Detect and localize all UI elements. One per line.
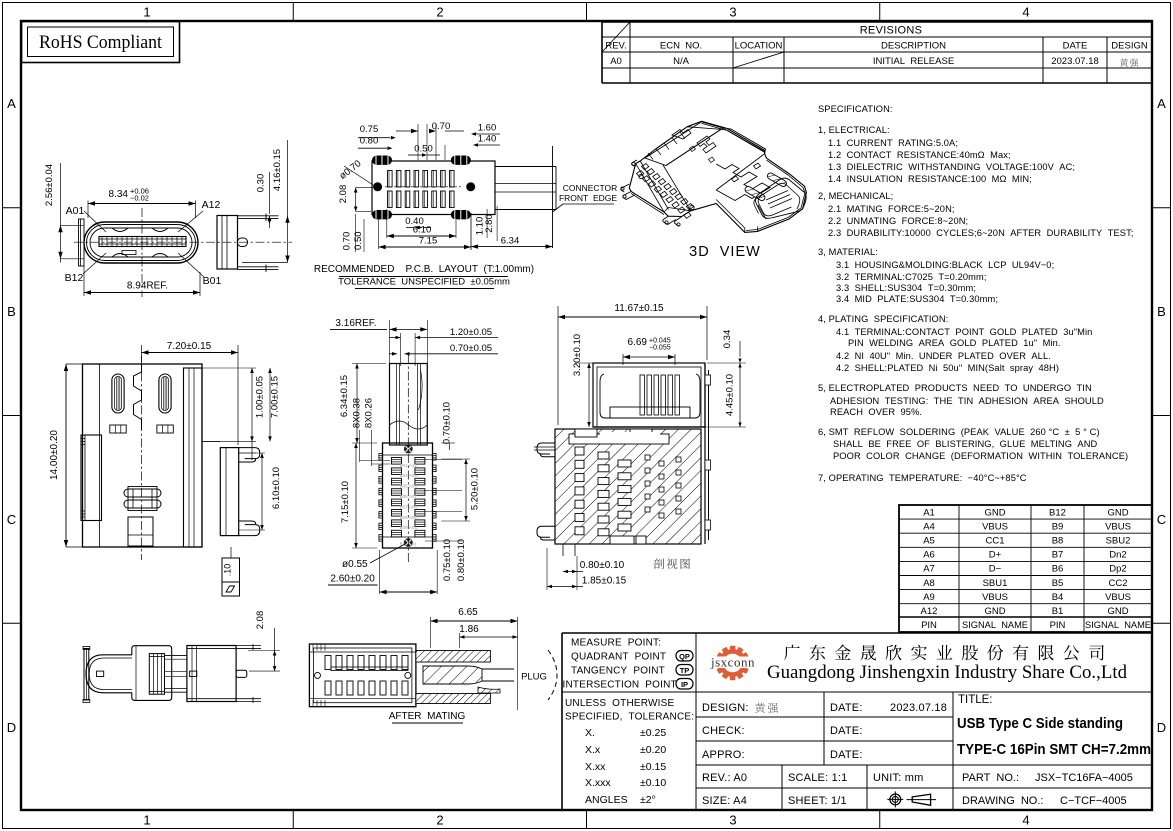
pcb layout: body (372, 156, 556, 220)
svg-text:X.: X. (585, 727, 595, 739)
side view dims 1.00 / 7.00 (202, 368, 281, 460)
company logo gear (702, 646, 763, 680)
mated profile view (83, 644, 261, 703)
svg-text:2.1 MATING FORCE:5~20N;: 2.1 MATING FORCE:5~20N; (828, 204, 955, 214)
svg-text:D: D (1157, 720, 1166, 735)
designer name in design cell (755, 703, 778, 713)
svg-text:2.60±0.20: 2.60±0.20 (330, 574, 375, 585)
recommended pcb layout caption (314, 264, 534, 289)
design/check/appro rows (702, 702, 947, 807)
svg-text:3.3 SHELL:SUS304 T=0.30mm;: 3.3 SHELL:SUS304 T=0.30mm; (836, 283, 976, 293)
svg-text:0.75±0.10: 0.75±0.10 (442, 539, 453, 581)
svg-text:B12: B12 (65, 272, 84, 284)
svg-text:VBUS: VBUS (1105, 521, 1131, 532)
svg-text:A5: A5 (923, 536, 935, 547)
svg-text:−0.02: −0.02 (130, 194, 149, 203)
svg-text:DESCRIPTION: DESCRIPTION (881, 41, 946, 52)
svg-text:14.00±0.20: 14.00±0.20 (49, 430, 60, 480)
svg-text:VBUS: VBUS (982, 521, 1008, 532)
pin assignment table (899, 505, 1152, 632)
svg-text:1.40: 1.40 (478, 134, 497, 145)
svg-text:QUADRANT POINT: QUADRANT POINT (571, 652, 666, 663)
svg-text:2: 2 (436, 813, 443, 828)
svg-text:2.80: 2.80 (484, 214, 495, 233)
svg-text:0.50: 0.50 (414, 144, 433, 155)
svg-text:SBU2: SBU2 (1106, 536, 1131, 547)
svg-text:B01: B01 (203, 275, 222, 287)
svg-text:QP: QP (679, 652, 690, 661)
projection symbols (887, 791, 936, 807)
svg-text:±0.15: ±0.15 (640, 761, 666, 773)
svg-text:Dp2: Dp2 (1109, 564, 1126, 575)
after mating caption (389, 711, 466, 723)
svg-text:DESIGN: DESIGN (1111, 41, 1148, 52)
svg-text:C−TCF−4005: C−TCF−4005 (1060, 795, 1127, 807)
svg-text:11.67±0.15: 11.67±0.15 (614, 303, 664, 314)
svg-text:2.2 UNMATING FORCE:8~20N;: 2.2 UNMATING FORCE:8~20N; (828, 216, 968, 226)
svg-text:A0: A0 (610, 56, 622, 67)
svg-text:INITIAL RELEASE: INITIAL RELEASE (873, 56, 954, 67)
side view: body outline (81, 356, 260, 560)
svg-text:AFTER MATING: AFTER MATING (389, 711, 466, 722)
svg-text:1.20±0.05: 1.20±0.05 (450, 327, 492, 338)
svg-text:0.34: 0.34 (722, 330, 733, 349)
front view dimension 4.16 (242, 140, 290, 263)
svg-text:MEASURE POINT:: MEASURE POINT: (571, 638, 661, 649)
svg-text:IP: IP (681, 680, 688, 689)
connector front edge note (553, 146, 618, 248)
company english name (767, 663, 1128, 683)
front view: connector outline (74, 208, 292, 297)
front view dimension 8.34 (88, 187, 196, 219)
front view dimension 2.56 (44, 163, 84, 263)
svg-text:7.15: 7.15 (419, 236, 438, 247)
svg-text:−0.055: −0.055 (649, 345, 671, 352)
specification text block (818, 104, 1134, 483)
svg-text:6.34±0.15: 6.34±0.15 (339, 375, 350, 417)
svg-text:4: 4 (1022, 5, 1029, 20)
svg-text:0.75: 0.75 (360, 124, 379, 135)
svg-text:7.20±0.15: 7.20±0.15 (167, 341, 212, 352)
front view dimension 8.94REF (84, 266, 200, 296)
section view dim 11.67 (558, 303, 707, 425)
svg-text:DRAWING NO.:: DRAWING NO.: (962, 795, 1043, 807)
tolerance box text (565, 698, 694, 806)
svg-text:0.70: 0.70 (432, 121, 451, 132)
pcb layout dimensions top (358, 121, 500, 160)
svg-text:APPRO:: APPRO: (702, 749, 745, 761)
front view pin labels (65, 199, 222, 287)
svg-text:REACH OVER 95%.: REACH OVER 95%. (830, 407, 922, 417)
svg-text:2.08: 2.08 (255, 611, 266, 630)
designer name (chinese) in revisions (1120, 58, 1138, 66)
svg-text:2, MECHANICAL;: 2, MECHANICAL; (818, 191, 893, 201)
svg-text:6.69: 6.69 (628, 337, 648, 348)
svg-text:3.2 TERMINAL:C7025 T=0.20mm;: 3.2 TERMINAL:C7025 T=0.20mm; (836, 272, 987, 282)
svg-text:SHEET: 1/1: SHEET: 1/1 (788, 795, 847, 807)
svg-text:7, OPERATING TEMPERATURE: −4: 7, OPERATING TEMPERATURE: −40°C~+85°C (818, 473, 1027, 483)
section view dims 0.34 / 4.45 (705, 330, 746, 427)
svg-text:ECN NO.: ECN NO. (660, 41, 702, 52)
svg-text:INTERSECTION POINT: INTERSECTION POINT (563, 680, 677, 691)
svg-text:5.20±0.10: 5.20±0.10 (469, 468, 480, 510)
svg-text:±0.20: ±0.20 (640, 744, 666, 756)
svg-text:D+: D+ (989, 550, 1002, 561)
svg-text:CC1: CC1 (985, 536, 1004, 547)
front view dimension 0.30 (256, 172, 272, 228)
svg-text:A12: A12 (921, 606, 938, 617)
svg-text:±2°: ±2° (640, 794, 656, 806)
svg-text:A: A (1157, 96, 1166, 111)
measure point box text (563, 638, 694, 691)
svg-text:4, PLATING SPECIFICATION:: 4, PLATING SPECIFICATION: (818, 314, 948, 324)
3d view drawing (621, 121, 807, 232)
svg-text:REVISIONS: REVISIONS (860, 25, 923, 37)
zone ticks (292, 3, 294, 22)
revisions table (602, 22, 1152, 83)
svg-text:RECOMMENDED P.C.B. LAYOUT: RECOMMENDED P.C.B. LAYOUT (T:1.00mm) (314, 264, 534, 275)
svg-text:ADHESION TESTING: THE TIN: ADHESION TESTING: THE TIN ADHESION AREA … (830, 396, 1104, 406)
svg-text:CONNECTOR: CONNECTOR (563, 183, 618, 193)
svg-text:+0.045: +0.045 (649, 338, 671, 345)
side view dim 14.00 (49, 364, 83, 547)
svg-text:D: D (7, 720, 16, 735)
svg-text:1.3 DIELECTRIC WITHSTANDING: 1.3 DIELECTRIC WITHSTANDING VOLTAGE:100V… (828, 162, 1075, 172)
svg-text:D−: D− (989, 564, 1002, 575)
svg-text:LOCATION: LOCATION (735, 41, 783, 52)
svg-text:.10: .10 (223, 564, 233, 577)
svg-text:A12: A12 (202, 199, 221, 211)
svg-text:4.1 TERMINAL:CONTACT POINT: 4.1 TERMINAL:CONTACT POINT GOLD PLATED 3… (836, 327, 1092, 337)
svg-text:5, ELECTROPLATED PRODUCTS NE: 5, ELECTROPLATED PRODUCTS NEED TO UNDERG… (818, 383, 1092, 393)
svg-text:VBUS: VBUS (982, 592, 1008, 603)
RoHS compliant label box (22, 22, 180, 63)
svg-text:SIZE: A4: SIZE: A4 (702, 795, 747, 807)
svg-text:SIGNAL NAME: SIGNAL NAME (962, 620, 1028, 630)
svg-text:B: B (7, 304, 16, 319)
svg-text:2: 2 (436, 5, 443, 20)
svg-text:SPECIFICATION:: SPECIFICATION: (818, 104, 893, 114)
svg-text:A01: A01 (66, 205, 85, 217)
svg-text:DATE:: DATE: (830, 749, 863, 761)
svg-text:A4: A4 (923, 521, 935, 532)
side view dim 6.10 (239, 453, 282, 530)
section view label (654, 558, 690, 569)
svg-text:6.34: 6.34 (501, 236, 520, 247)
svg-text:GND: GND (984, 606, 1005, 617)
svg-text:ø0.55: ø0.55 (342, 559, 368, 570)
svg-text:C: C (1157, 512, 1166, 527)
svg-text:PART NO.:: PART NO.: (962, 772, 1019, 784)
svg-text:TOLERANCE UNSPECIFIED ±0.05m: TOLERANCE UNSPECIFIED ±0.05mm (338, 277, 510, 288)
svg-text:0.70: 0.70 (342, 232, 353, 251)
svg-text:SHALL BE FREE OF BLISTERIN: SHALL BE FREE OF BLISTERING, GLUE MELTIN… (833, 439, 1098, 449)
svg-text:PLUG: PLUG (521, 672, 547, 683)
section view dim 3.20 (566, 334, 593, 427)
title text (957, 694, 1151, 807)
svg-text:4.2 SHELL:PLATED Ni 50u" M: 4.2 SHELL:PLATED Ni 50u" MIN(Salt spray … (836, 363, 1059, 373)
svg-text:6.65: 6.65 (458, 607, 478, 618)
svg-text:X.xxx: X.xxx (585, 777, 611, 789)
company chinese name (784, 645, 1104, 661)
svg-text:B12: B12 (1049, 507, 1066, 518)
svg-text:B8: B8 (1052, 536, 1064, 547)
svg-text:PIN: PIN (921, 620, 937, 631)
svg-text:7.00±0.15: 7.00±0.15 (270, 376, 281, 418)
svg-text:2023.07.18: 2023.07.18 (890, 702, 947, 714)
svg-text:A1: A1 (923, 507, 935, 518)
svg-text:CHECK:: CHECK: (702, 725, 745, 737)
svg-text:1.86: 1.86 (459, 624, 479, 635)
svg-text:A6: A6 (923, 550, 935, 561)
svg-text:SIGNAL NAME: SIGNAL NAME (1085, 620, 1151, 630)
svg-text:UNLESS OTHERWISE: UNLESS OTHERWISE (565, 698, 674, 709)
svg-text:0.30: 0.30 (256, 174, 267, 193)
svg-text:2.56±0.04: 2.56±0.04 (44, 164, 55, 206)
svg-text:B1: B1 (1052, 606, 1064, 617)
svg-text:8X0.26: 8X0.26 (364, 398, 375, 428)
svg-text:B5: B5 (1052, 578, 1064, 589)
after mating view: receptacle body (309, 644, 416, 707)
svg-text:USB Type C Side standing: USB Type C Side standing (957, 716, 1123, 732)
svg-text:6.10±0.10: 6.10±0.10 (271, 467, 282, 509)
3d view caption (689, 244, 761, 260)
svg-text:4.45±0.10: 4.45±0.10 (725, 374, 736, 416)
title block grid (562, 633, 1152, 810)
svg-text:7.15±0.10: 7.15±0.10 (340, 481, 351, 523)
svg-text:SPECIFIED, TOLERANCE:: SPECIFIED, TOLERANCE: (565, 712, 694, 723)
svg-text:B7: B7 (1052, 550, 1064, 561)
svg-text:PIN WELDING AREA GOLD PLAT: PIN WELDING AREA GOLD PLATED 1u" Min. (848, 338, 1061, 348)
top view dims right (427, 402, 480, 521)
section view: hatched body (534, 363, 711, 556)
svg-text:2.08: 2.08 (338, 185, 349, 204)
svg-text:DESIGN:: DESIGN: (702, 702, 749, 714)
svg-text:3.4 MID PLATE:SUS304 T=0.30: 3.4 MID PLATE:SUS304 T=0.30mm; (836, 294, 998, 304)
svg-text:GND: GND (1107, 606, 1128, 617)
svg-text:A9: A9 (923, 592, 935, 603)
after mating view: plug hatched (416, 651, 514, 704)
svg-text:2.3 DURABILITY:10000 CYCLES;: 2.3 DURABILITY:10000 CYCLES;6~20N AFTER … (828, 228, 1134, 238)
svg-text:DATE:: DATE: (830, 725, 863, 737)
svg-text:0.50: 0.50 (353, 231, 364, 250)
svg-text:1.2 CONTACT RESISTANCE:40mΩ: 1.2 CONTACT RESISTANCE:40mΩ Max; (828, 150, 1011, 160)
svg-text:GND: GND (984, 507, 1005, 518)
after mating dims 6.65 / 1.86 (431, 607, 518, 710)
svg-text:B: B (1157, 304, 1166, 319)
svg-text:±0.10: ±0.10 (640, 777, 666, 789)
svg-text:POOR COLOR CHANGE (DEFORMAT: POOR COLOR CHANGE (DEFORMATION WITHIN TO… (833, 451, 1128, 461)
svg-text:6, SMT REFLOW SOLDERING (PE: 6, SMT REFLOW SOLDERING (PEAK VALUE 260 … (818, 427, 1100, 437)
svg-text:3, MATERIAL:: 3, MATERIAL: (818, 247, 878, 257)
top view dims bottom (328, 530, 467, 595)
pin table text (921, 507, 1151, 631)
svg-text:1, ELECTRICAL:: 1, ELECTRICAL: (818, 125, 890, 135)
svg-text:TYPE-C 16Pin SMT CH=7.2mm: TYPE-C 16Pin SMT CH=7.2mm (957, 742, 1151, 758)
svg-text:DATE:: DATE: (830, 702, 863, 714)
svg-text:Guangdong Jinshengxin Industry: Guangdong Jinshengxin Industry Share Co.… (767, 663, 1128, 683)
svg-text:0.70±0.05: 0.70±0.05 (450, 343, 492, 354)
svg-text:GND: GND (1107, 507, 1128, 518)
svg-text:B9: B9 (1052, 521, 1064, 532)
svg-text:A8: A8 (923, 578, 935, 589)
svg-text:X.x: X.x (585, 744, 601, 756)
svg-text:3.16REF.: 3.16REF. (335, 318, 376, 329)
svg-text:8.94REF.: 8.94REF. (127, 281, 168, 292)
svg-text:3: 3 (729, 813, 736, 828)
revisions table text (605, 25, 1147, 68)
svg-text:3.20±0.10: 3.20±0.10 (572, 334, 583, 376)
svg-text:A: A (7, 96, 16, 111)
svg-text:jsxconn: jsxconn (710, 655, 755, 670)
svg-text:TANGENCY POINT: TANGENCY POINT (571, 666, 665, 677)
svg-text:REV.: REV. (605, 41, 626, 52)
svg-text:PIN: PIN (1050, 620, 1066, 631)
svg-text:A7: A7 (923, 564, 935, 575)
svg-text:SCALE: 1:1: SCALE: 1:1 (788, 772, 847, 784)
svg-text:TP: TP (680, 666, 690, 675)
svg-text:REV.: A0: REV.: A0 (702, 772, 747, 784)
svg-text:4.2 NI 40U" Min. UNDER PL: 4.2 NI 40U" Min. UNDER PLATED OVER ALL. (836, 351, 1051, 361)
svg-text:DATE: DATE (1063, 41, 1088, 52)
svg-text:1: 1 (143, 813, 150, 828)
top view dims left (339, 364, 390, 549)
svg-text:3: 3 (729, 5, 736, 20)
svg-text:0.80±0.10: 0.80±0.10 (580, 560, 625, 571)
flatness tolerance frame (222, 547, 240, 596)
svg-text:TITLE:: TITLE: (958, 694, 993, 706)
svg-text:RoHS Compliant: RoHS Compliant (39, 32, 163, 53)
svg-text:0.70±0.10: 0.70±0.10 (441, 402, 452, 444)
section view: top shell (593, 363, 705, 427)
svg-text:4: 4 (1022, 813, 1029, 828)
svg-text:6.10: 6.10 (413, 225, 432, 236)
section view dim 6.69 (597, 337, 675, 365)
svg-text:8.34: 8.34 (109, 189, 129, 200)
svg-text:JSX−TC16FA−4005: JSX−TC16FA−4005 (1035, 772, 1133, 784)
plug label (521, 650, 557, 700)
svg-text:ANGLES: ANGLES (585, 794, 628, 806)
svg-text:B6: B6 (1052, 564, 1064, 575)
top view: tongue and body (379, 355, 462, 562)
svg-text:±0.25: ±0.25 (640, 727, 666, 739)
svg-text:FRONT EDGE: FRONT EDGE (559, 193, 617, 203)
svg-text:Dn2: Dn2 (1109, 550, 1126, 561)
svg-text:8X0.38: 8X0.38 (352, 398, 363, 428)
section view dims 0.80 / 1.85 (547, 548, 627, 590)
svg-text:1.60: 1.60 (478, 123, 497, 134)
pcb layout dimensions left/bottom (338, 158, 553, 252)
svg-text:3D VIEW: 3D VIEW (689, 244, 761, 260)
svg-text:VBUS: VBUS (1105, 592, 1131, 603)
svg-text:N/A: N/A (673, 56, 690, 67)
svg-text:C: C (7, 512, 16, 527)
svg-text:1.00±0.05: 1.00±0.05 (255, 376, 266, 418)
svg-text:1.85±0.15: 1.85±0.15 (582, 576, 627, 587)
side view dim 7.20 (142, 341, 239, 445)
svg-text:1.4 INSULATION RESISTANCE:10: 1.4 INSULATION RESISTANCE:100 MΩ MIN; (828, 174, 1032, 184)
svg-text:CC2: CC2 (1108, 578, 1127, 589)
mated profile dim 2.08 (248, 611, 280, 671)
svg-text:1: 1 (143, 5, 150, 20)
top view dims upper (330, 318, 498, 366)
svg-text:0.80: 0.80 (360, 136, 379, 147)
svg-text:SBU1: SBU1 (983, 578, 1008, 589)
svg-text:UNIT: mm: UNIT: mm (873, 772, 923, 784)
svg-text:3.1 HOUSING&MOLDING:BLACK LC: 3.1 HOUSING&MOLDING:BLACK LCP UL94V−0; (836, 260, 1054, 270)
svg-text:4.16±0.15: 4.16±0.15 (272, 149, 283, 191)
svg-text:B4: B4 (1052, 592, 1064, 603)
svg-text:X.xx: X.xx (585, 761, 606, 773)
svg-text:0.80±0.10: 0.80±0.10 (456, 539, 467, 581)
svg-text:1.1 CURRENT RATING:5.0A;: 1.1 CURRENT RATING:5.0A; (828, 138, 958, 148)
svg-text:2023.07.18: 2023.07.18 (1051, 56, 1099, 67)
